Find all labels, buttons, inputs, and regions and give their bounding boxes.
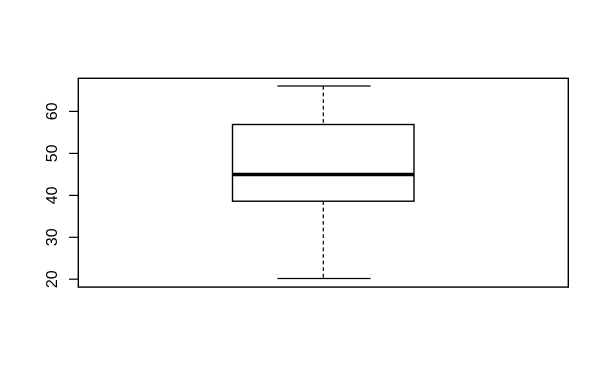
svg-text:40: 40 bbox=[44, 186, 61, 204]
svg-text:20: 20 bbox=[44, 270, 61, 288]
svg-text:30: 30 bbox=[44, 228, 61, 246]
svg-text:50: 50 bbox=[44, 144, 61, 162]
svg-text:60: 60 bbox=[44, 102, 61, 120]
